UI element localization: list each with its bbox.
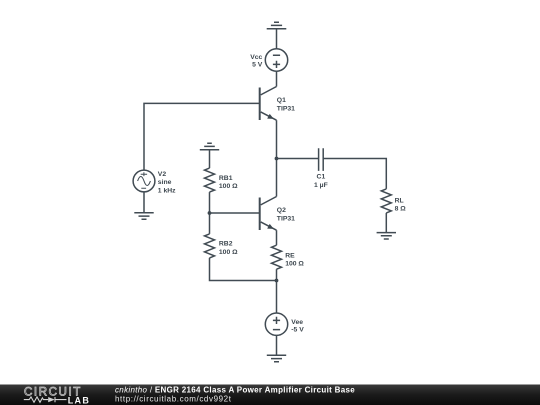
node junction RB1/RB2/Q2 base	[208, 211, 212, 215]
wire RB1 to RB2	[209, 192, 211, 234]
label Q1 TIP31	[277, 97, 295, 112]
svg-text:LAB: LAB	[68, 395, 91, 405]
ground (above RB1)	[200, 143, 219, 150]
resistor RB2	[205, 234, 215, 258]
svg-text:5 V: 5 V	[252, 61, 263, 68]
wire top ground to Vcc	[276, 29, 278, 49]
svg-text:1 kHz: 1 kHz	[158, 187, 176, 194]
logo wire resistor diode	[24, 397, 67, 402]
label RB2 100 ohm	[219, 241, 238, 256]
svg-text:cnkintho / ENGR 2164 Class A P: cnkintho / ENGR 2164 Class A Power Ampli…	[115, 385, 355, 394]
wire Vee to ground	[276, 335, 278, 355]
wire junction to Q2 base	[210, 212, 260, 214]
svg-text:Vcc: Vcc	[250, 54, 262, 61]
svg-text:Q2: Q2	[277, 207, 286, 214]
wire ground to RB1	[209, 150, 211, 168]
resistor RL	[381, 189, 391, 213]
svg-text:100 Ω: 100 Ω	[219, 183, 238, 190]
svg-text:100 Ω: 100 Ω	[219, 249, 238, 256]
wire V2 to ground	[143, 192, 145, 213]
label C1 1 uF	[314, 174, 328, 189]
wire RB2 to bottom rail	[210, 258, 277, 281]
wire RE to bottom rail	[276, 269, 278, 313]
wire Q2 emitter to RE	[276, 230, 278, 245]
capacitor C1	[319, 148, 324, 171]
svg-text:8 Ω: 8 Ω	[395, 206, 407, 213]
wire Vcc to Q1 collector	[276, 71, 278, 86]
wire C1 to RL	[323, 159, 386, 189]
svg-text:sine: sine	[158, 179, 172, 186]
ground (below Vee)	[267, 355, 286, 362]
svg-text:100 Ω: 100 Ω	[285, 261, 304, 268]
label Vee -5 V	[291, 319, 304, 333]
voltage source Vcc (5 V)	[265, 49, 287, 71]
voltage source V2 (sine)	[133, 170, 155, 192]
svg-text:RL: RL	[395, 197, 404, 204]
ground (below RL)	[377, 233, 396, 239]
svg-text:V2: V2	[158, 171, 167, 178]
svg-text:C1: C1	[317, 174, 326, 181]
ground (top, above Vcc)	[267, 22, 287, 29]
wire output node to C1	[277, 158, 319, 160]
wire RL to ground	[385, 213, 387, 233]
svg-text:-5 V: -5 V	[291, 327, 304, 334]
resistor RB1	[205, 168, 215, 192]
svg-text:TIP31: TIP31	[277, 105, 295, 112]
ground (below V2)	[134, 213, 153, 220]
resistor RE	[272, 245, 282, 269]
svg-text:RB1: RB1	[219, 175, 233, 182]
transistor Q2	[260, 197, 277, 231]
label RB1 100 ohm	[219, 175, 238, 190]
svg-text:RE: RE	[285, 252, 295, 259]
label Vcc 5 V	[250, 54, 263, 68]
wire V2 to Q1 base	[144, 103, 260, 170]
voltage source Vee (-5 V)	[265, 313, 287, 335]
node output junction	[275, 157, 279, 161]
svg-text:RB2: RB2	[219, 241, 233, 248]
label V2 sine 1 kHz	[158, 171, 176, 194]
label RL 8 ohm	[395, 197, 407, 212]
wire Q1 emitter down to output node	[276, 120, 278, 158]
node bottom junction	[275, 279, 279, 283]
svg-text:Q1: Q1	[277, 97, 286, 104]
svg-text:1 µF: 1 µF	[314, 182, 328, 189]
wire Q2 collector to output node	[276, 159, 278, 197]
label Q2 TIP31	[277, 207, 295, 222]
footer bar	[0, 385, 540, 405]
svg-text:Vee: Vee	[291, 319, 303, 326]
label RE 100 ohm	[285, 252, 304, 267]
svg-text:http://circuitlab.com/cdv992t: http://circuitlab.com/cdv992t	[115, 394, 232, 403]
svg-text:TIP31: TIP31	[277, 215, 295, 222]
transistor Q1	[260, 87, 277, 121]
